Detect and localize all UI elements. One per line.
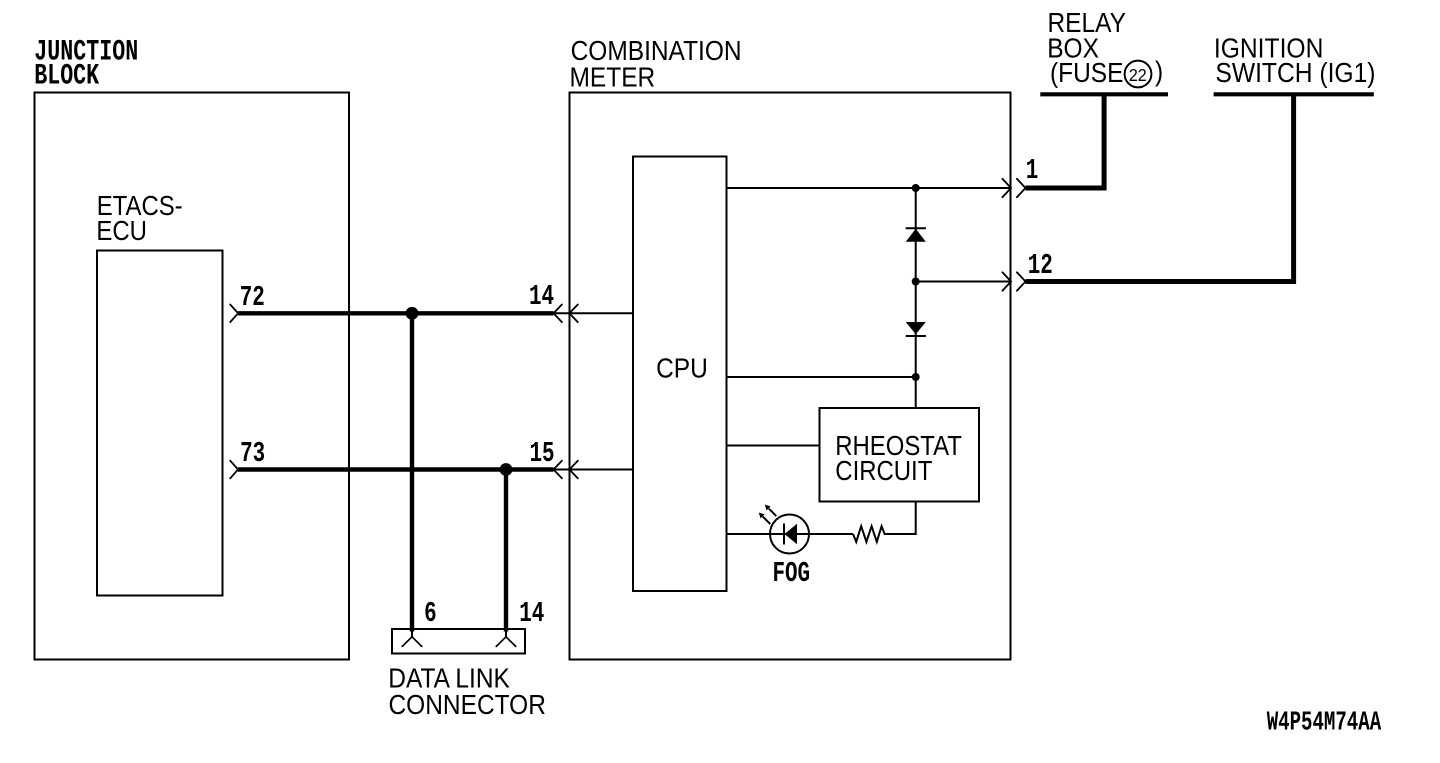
- svg-text:ECU: ECU: [96, 214, 147, 246]
- svg-text:6: 6: [424, 597, 437, 630]
- svg-text:14: 14: [519, 597, 544, 630]
- svg-text:SWITCH (IG1): SWITCH (IG1): [1215, 57, 1375, 89]
- svg-text:22: 22: [1129, 65, 1147, 85]
- svg-text:): ): [1155, 55, 1163, 87]
- svg-text:73: 73: [240, 437, 265, 470]
- svg-text:(FUSE: (FUSE: [1050, 57, 1123, 89]
- svg-text:1: 1: [1026, 154, 1039, 187]
- svg-text:METER: METER: [570, 61, 656, 93]
- svg-text:W4P54M74AA: W4P54M74AA: [1267, 707, 1382, 737]
- svg-text:14: 14: [529, 280, 554, 313]
- svg-text:12: 12: [1028, 249, 1053, 282]
- svg-text:CPU: CPU: [656, 352, 708, 384]
- svg-text:FOG: FOG: [773, 557, 811, 590]
- svg-text:72: 72: [240, 281, 265, 314]
- svg-text:15: 15: [529, 437, 554, 470]
- svg-text:CONNECTOR: CONNECTOR: [389, 688, 546, 720]
- svg-text:BLOCK: BLOCK: [34, 58, 99, 92]
- svg-text:CIRCUIT: CIRCUIT: [835, 454, 932, 486]
